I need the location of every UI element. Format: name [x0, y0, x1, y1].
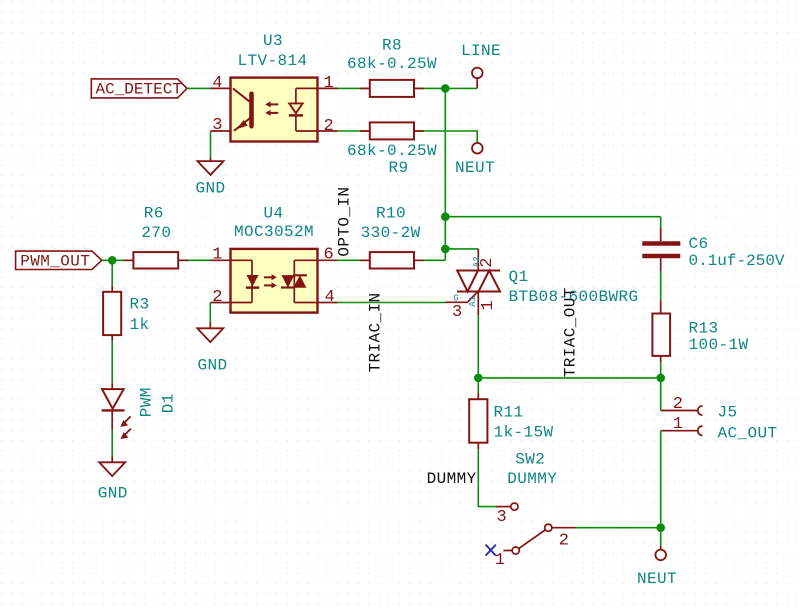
ground below U3 — [195, 158, 225, 198]
wire U4 pin 6 to R10 — [338, 259, 370, 261]
resistor R13 — [652, 301, 748, 362]
svg-text:OPTO_IN: OPTO_IN — [336, 187, 354, 257]
wire PWM_OUT to R6 — [102, 259, 134, 261]
svg-text:1: 1 — [212, 246, 223, 265]
global label PWM_OUT — [16, 251, 102, 270]
svg-text:68k-0.25W: 68k-0.25W — [347, 142, 437, 160]
U3 phototransistor — [233, 88, 254, 130]
svg-text:C6: C6 — [689, 235, 709, 253]
wire SW2 pin 2 to right rail — [577, 527, 661, 529]
svg-text:TRIAC_IN: TRIAC_IN — [366, 292, 384, 372]
svg-text:1: 1 — [479, 300, 498, 311]
svg-text:R3: R3 — [130, 296, 150, 314]
svg-text:PWM_OUT: PWM_OUT — [20, 252, 90, 270]
svg-text:GND: GND — [98, 484, 128, 502]
svg-text:DUMMY: DUMMY — [427, 470, 477, 488]
connector LINE — [461, 42, 501, 88]
svg-text:NEUT: NEUT — [455, 159, 495, 177]
svg-text:MOC3052M: MOC3052M — [234, 223, 314, 241]
svg-text:J5: J5 — [718, 403, 738, 421]
svg-text:1k: 1k — [130, 316, 150, 334]
wire U3 pin1 to R8 — [338, 87, 370, 89]
junction node PWM_OUT — [108, 256, 117, 265]
R10 pin stubs — [360, 259, 424, 261]
wire R10 to rail — [414, 259, 445, 261]
svg-text:R6: R6 — [144, 205, 164, 223]
ground below D1 — [98, 457, 128, 503]
resistor R3 — [103, 286, 149, 341]
connector J5 pin 2 — [661, 395, 703, 415]
svg-text:AC_OUT: AC_OUT — [718, 425, 778, 443]
U4 pin 4 — [318, 288, 338, 307]
U3 internal LED — [289, 88, 318, 131]
ground below U4 — [197, 323, 227, 375]
resistor R11 — [469, 393, 553, 449]
U3 light arrows — [265, 101, 278, 116]
wire R13 to junction — [660, 362, 662, 378]
optocoupler U3 body — [231, 78, 318, 142]
wire R3 to D1 — [111, 341, 113, 383]
svg-text:2: 2 — [559, 531, 570, 550]
wire R9 to NEUT — [414, 131, 477, 143]
wire U3 pin2 to R9 — [338, 130, 370, 132]
U3 pin 3 — [211, 116, 231, 135]
wire junction to NEUT bottom — [660, 528, 662, 546]
wire junction to R11 — [477, 378, 479, 393]
wire Q1 A1 down to junction — [477, 315, 479, 378]
svg-text:R8: R8 — [382, 37, 402, 55]
U4 pin 1 — [211, 246, 231, 265]
svg-text:R13: R13 — [689, 320, 719, 338]
svg-text:R9: R9 — [388, 159, 408, 177]
wire rail to C6 top — [445, 216, 660, 218]
svg-text:DUMMY: DUMMY — [507, 470, 557, 488]
svg-text:R11: R11 — [494, 404, 524, 422]
U3 pin 1 — [318, 74, 338, 93]
svg-text:3: 3 — [452, 303, 463, 322]
wire R8 to LINE — [414, 87, 477, 89]
optocoupler U4 body — [231, 249, 318, 313]
U4 pin 6 — [318, 246, 338, 265]
svg-text:68k-0.25W: 68k-0.25W — [347, 55, 437, 73]
svg-text:4: 4 — [325, 288, 336, 307]
U3 pin 4 — [211, 74, 231, 93]
svg-text:PWM: PWM — [138, 387, 156, 417]
resistor R6 — [133, 205, 178, 269]
capacitor C6 — [642, 217, 785, 271]
wire U4 pin 2 to ground — [209, 303, 211, 323]
U4 pin 2 — [211, 288, 231, 307]
wire rail to Q1 A2 — [445, 248, 478, 250]
connector NEUT bottom — [637, 545, 677, 588]
junction node A2 row — [441, 245, 450, 254]
svg-text:U3: U3 — [263, 32, 283, 50]
wire U3 pin 3 to ground — [210, 131, 212, 158]
svg-text:LTV-814: LTV-814 — [237, 52, 307, 70]
svg-text:TRIAC_OUT: TRIAC_OUT — [561, 287, 579, 377]
svg-text:2: 2 — [673, 395, 684, 414]
svg-text:4: 4 — [212, 74, 223, 93]
svg-text:0.1uf-250V: 0.1uf-250V — [689, 252, 785, 270]
resistor R8 — [347, 37, 437, 97]
U4 light arrows — [264, 274, 277, 288]
wire right rail to J5 pin 2 — [660, 378, 662, 411]
svg-text:G: G — [453, 294, 458, 304]
junction node switch row — [656, 523, 665, 532]
svg-text:1: 1 — [673, 415, 684, 434]
junction node Q1 bottom — [474, 374, 483, 383]
svg-text:R10: R10 — [376, 205, 406, 223]
svg-text:1k-15W: 1k-15W — [494, 424, 554, 442]
R8 pin stubs — [360, 87, 424, 89]
U4 internal triac — [281, 260, 318, 302]
svg-text:100-1W: 100-1W — [689, 336, 749, 354]
svg-text:3: 3 — [497, 508, 508, 527]
svg-text:1: 1 — [495, 551, 506, 570]
resistor R9 — [347, 122, 437, 177]
svg-text:LINE: LINE — [461, 42, 501, 60]
wire bottom horizontal Q1 to right rail — [478, 377, 660, 379]
connector J5 pin 1 — [661, 415, 703, 435]
svg-text:330-2W: 330-2W — [361, 224, 421, 242]
wire PWM_OUT junction to R3 — [111, 260, 113, 286]
svg-text:D1: D1 — [160, 393, 178, 413]
svg-text:1: 1 — [324, 74, 335, 93]
wire R11 to SW2 pin 3 — [478, 449, 496, 507]
svg-text:SW2: SW2 — [515, 451, 545, 469]
R9 pin stubs — [360, 130, 424, 132]
wire C6 to R13 — [660, 271, 662, 301]
junction node C6 row — [441, 212, 450, 221]
junction node R13 bottom — [656, 374, 665, 383]
svg-text:A1: A1 — [468, 296, 478, 307]
junction node LINE/R8 — [441, 84, 450, 93]
svg-text:2: 2 — [324, 117, 335, 136]
svg-text:A2: A2 — [472, 256, 482, 267]
svg-text:3: 3 — [212, 116, 223, 135]
svg-text:6: 6 — [324, 246, 335, 265]
wire U4 pin 4 to Q1 gate — [338, 302, 446, 304]
switch SW2 — [496, 503, 577, 554]
resistor R10 — [361, 205, 421, 269]
R6 pin stubs — [123, 259, 188, 261]
wire D1 to ground — [111, 430, 113, 457]
SW2 no-connect X — [486, 545, 496, 556]
triac Q1 — [445, 249, 500, 315]
svg-text:U4: U4 — [263, 205, 283, 223]
svg-text:270: 270 — [141, 224, 171, 242]
LED D1 — [102, 383, 178, 439]
wire R6 to U4 pin 1 — [178, 259, 210, 261]
svg-text:GND: GND — [197, 356, 227, 374]
wire vertical rail from LINE junction down — [444, 88, 446, 260]
svg-text:NEUT: NEUT — [637, 570, 677, 588]
U3 pin 2 — [318, 117, 338, 136]
connector NEUT top — [455, 143, 495, 177]
svg-text:AC_DETECT: AC_DETECT — [96, 80, 182, 98]
wire AC_DETECT to U3 pin 4 — [187, 87, 211, 89]
svg-text:GND: GND — [195, 180, 225, 198]
svg-text:Q1: Q1 — [509, 268, 529, 286]
svg-text:2: 2 — [212, 288, 223, 307]
global label AC_DETECT — [91, 79, 187, 99]
U4 internal LED — [231, 260, 260, 302]
wire J5 pin 1 down to switch row — [660, 431, 662, 528]
